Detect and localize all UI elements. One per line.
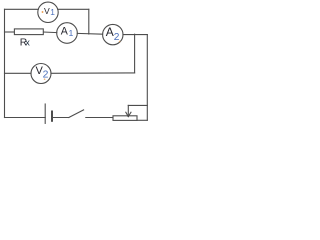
wire slider horizontal from right rail xyxy=(128,104,147,106)
wire rheostat right end to right rail xyxy=(137,119,147,121)
battery short plate xyxy=(51,112,53,121)
wire Rx to A1 xyxy=(43,31,57,34)
slider arrow shaft xyxy=(127,105,129,116)
wire V2 right horizontal xyxy=(51,72,135,74)
wire V1 branch vertical to node A xyxy=(88,9,90,34)
svg-text:1: 1 xyxy=(50,7,55,17)
voltmeter V1 xyxy=(38,2,58,22)
artifact dot V1 xyxy=(42,11,44,13)
artifact dot V2 xyxy=(44,78,46,80)
wire left rail xyxy=(4,9,6,117)
wire V1 right to corner xyxy=(58,8,89,10)
wire V2 branch vertical xyxy=(134,34,136,73)
voltmeter V2 xyxy=(31,64,51,84)
ammeter A2 xyxy=(103,24,123,44)
svg-text:2: 2 xyxy=(114,32,120,43)
rheostat body xyxy=(113,116,137,121)
ammeter A1 xyxy=(57,23,78,44)
svg-text:2: 2 xyxy=(43,70,49,81)
svg-text:V: V xyxy=(44,6,50,16)
svg-text:x: x xyxy=(25,37,30,47)
artifact dot A2 xyxy=(119,41,121,43)
wire switch to rheostat xyxy=(86,117,113,119)
battery long plate xyxy=(44,104,46,123)
svg-text:A: A xyxy=(106,25,114,39)
wire right rail down xyxy=(146,35,148,121)
wire top left to V1 xyxy=(5,8,39,10)
wire left rail to V2 xyxy=(5,72,32,74)
wire battery to switch xyxy=(52,117,69,119)
switch blade xyxy=(69,110,84,118)
resistor Rx body xyxy=(14,29,43,35)
wire bottom left to battery xyxy=(5,117,46,119)
slider arrowhead xyxy=(126,112,129,116)
wire A1 to node A to A2 xyxy=(77,32,102,35)
wire left rail to Rx xyxy=(5,31,15,33)
svg-text:1: 1 xyxy=(69,28,74,38)
wire A2 right to right corner xyxy=(123,34,147,36)
